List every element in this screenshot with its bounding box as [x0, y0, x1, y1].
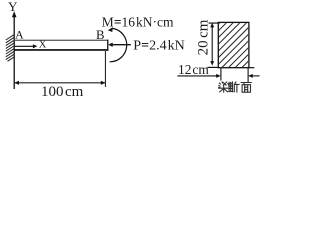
dimension line 20 cm (vertical): [211, 27, 213, 63]
svg-text:12cm: 12cm: [178, 62, 209, 77]
beam bottom edge: [14, 49, 108, 51]
caption 梁斷面 (beam cross-section) drawn as vector strokes: [219, 82, 252, 93]
svg-text:100cm: 100cm: [41, 84, 84, 100]
Y axis / wall edge line: [13, 16, 15, 90]
dimension line 12 cm (horizontal, arrows outside): [177, 75, 216, 77]
beam top edge: [14, 40, 108, 41]
moment arc M (counter-clockwise arrow at free end): [110, 28, 127, 61]
X axis arrow: [15, 45, 34, 47]
char 梁: [219, 82, 229, 92]
force P arrow: [112, 44, 131, 46]
dimension line 100 cm: [14, 82, 105, 84]
cross-section rectangle: [218, 22, 249, 67]
svg-text:A: A: [15, 28, 24, 42]
cross-section hatch: [174, 23, 294, 69]
svg-text:X: X: [39, 39, 47, 50]
beam right end edge: [107, 40, 108, 51]
bottom extension tick (left): [207, 66, 218, 68]
svg-text:M=16kN·cm: M=16kN·cm: [102, 14, 174, 29]
extension line below rect left edge: [220, 68, 222, 80]
char 斷: [229, 82, 239, 93]
svg-text:B: B: [96, 28, 105, 42]
char 面: [241, 83, 251, 93]
moment arc arrowhead: [108, 27, 113, 32]
Y axis arrowhead: [12, 11, 17, 17]
svg-text:20cm: 20cm: [196, 19, 212, 55]
top extension tick (left of rect top edge): [209, 22, 219, 24]
fixed support hatch: [6, 35, 14, 62]
extension line below rect right edge: [247, 68, 249, 82]
svg-text:Y: Y: [8, 0, 18, 14]
extension line under B: [104, 51, 106, 87]
svg-text:P=2.4kN: P=2.4kN: [133, 39, 184, 54]
bottom edge overshoot (right): [249, 67, 254, 69]
